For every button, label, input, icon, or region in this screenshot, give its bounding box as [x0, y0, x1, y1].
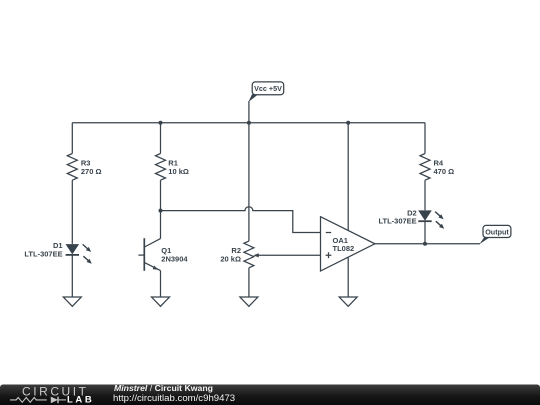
svg-text:270 Ω: 270 Ω [81, 167, 102, 176]
svg-text:20 kΩ: 20 kΩ [220, 255, 241, 264]
wire R3 to D1 [71, 180, 73, 244]
ground (Q1) [152, 297, 170, 306]
wire R2 wiper to op-amp plus input [253, 253, 320, 257]
wire R4 to D2 [424, 180, 426, 210]
svg-text:TL082: TL082 [333, 244, 355, 253]
wire left branch upper (rail to R3) [71, 123, 73, 154]
diode D2 (LED) [418, 210, 444, 228]
wire node to Q1 collector [160, 211, 162, 239]
svg-text:Minstrel / Circuit Kwang: Minstrel / Circuit Kwang [114, 383, 213, 393]
node junction dots [159, 121, 428, 246]
wire Vcc tail [248, 101, 250, 123]
svg-text:LTL-307EE: LTL-307EE [378, 216, 416, 225]
transistor Q1 [138, 238, 160, 271]
node R1-Q1-feedback [159, 209, 163, 213]
ground (R2) [240, 297, 258, 306]
svg-text:LAB: LAB [67, 395, 94, 405]
svg-text:LTL-307EE: LTL-307EE [24, 250, 62, 259]
wire op-amp V+ (rail to top edge) [347, 123, 349, 231]
net label Output [479, 225, 511, 244]
wire R2 to ground [248, 268, 250, 297]
diode D1 (LED) [66, 244, 92, 264]
svg-text:10 kΩ: 10 kΩ [168, 167, 189, 176]
wire op-amp output [375, 243, 480, 245]
wire node to op-amp minus input (with hop) [161, 207, 321, 233]
resistor R4 [420, 154, 430, 181]
op-amp OA1 [321, 217, 375, 271]
wire Q1 emitter to ground [160, 271, 162, 297]
wire top rail Vcc [72, 122, 425, 124]
ground (D1) [63, 297, 81, 306]
resistor R3 [67, 154, 77, 181]
svg-text:Vcc +5V: Vcc +5V [254, 84, 282, 93]
svg-text:Output: Output [485, 227, 509, 236]
svg-text:470 Ω: 470 Ω [434, 167, 455, 176]
wire R1 to node [160, 180, 162, 210]
wire op-amp V- to ground [347, 257, 349, 297]
node output-D2 [423, 242, 427, 246]
node Vcc-rail [247, 121, 251, 125]
wire Vcc rail to R2 [248, 123, 250, 241]
ground (op-amp) [339, 297, 357, 306]
logo resistor-diode glyph [10, 397, 66, 404]
wire R4 branch (rail to R4) [424, 123, 426, 154]
resistor R1 [156, 154, 166, 181]
svg-text:2N3904: 2N3904 [161, 255, 188, 264]
node opamp V+ rail [346, 121, 350, 125]
wire R1 branch (rail to R1) [160, 123, 162, 154]
node R1-rail [159, 121, 163, 125]
wire D2 to output node [424, 221, 426, 244]
potentiometer R2 [244, 241, 254, 268]
svg-text:http://circuitlab.com/c9h9473: http://circuitlab.com/c9h9473 [113, 393, 235, 404]
wire D1 to ground [71, 255, 73, 297]
net label Vcc +5V [248, 82, 283, 102]
